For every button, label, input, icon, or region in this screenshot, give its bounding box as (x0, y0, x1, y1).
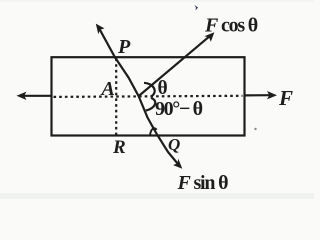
arrowhead F cos θ (204, 32, 214, 42)
line F cos θ (139, 36, 210, 96)
svg-text:Q: Q (168, 135, 180, 154)
arrowhead up-left at P end (96, 24, 105, 35)
svg-text:A: A (100, 78, 115, 100)
tiny dot speck (254, 128, 256, 130)
svg-text:F: F (278, 86, 293, 110)
line P-Q (direction of F sin θ) (98, 26, 180, 166)
angle arc θ (between F cos θ line and dotted line) (144, 83, 155, 97)
svg-text:F cos θ: F cos θ (204, 15, 258, 37)
svg-text:90°− θ: 90°− θ (155, 98, 203, 120)
small angle arc at Q (150, 128, 157, 135)
horizontal dotted line (line of action of F through the block) (54, 96, 243, 97)
arrowhead down-right (F sin θ end) (173, 159, 182, 169)
svg-text:R: R (112, 137, 126, 158)
stray ink speck (195, 5, 199, 11)
right arrow (force F) (245, 94, 271, 96)
svg-text:F sin θ: F sin θ (177, 172, 229, 194)
block (rectangle outline) (52, 57, 245, 135)
left arrow (reaction line) (23, 95, 51, 97)
vertical dotted line P-R (115, 59, 117, 135)
svg-text:θ: θ (158, 78, 168, 99)
svg-text:P: P (117, 36, 131, 58)
angle arc 90°−θ (between dotted line and P-Q line) (146, 98, 155, 111)
